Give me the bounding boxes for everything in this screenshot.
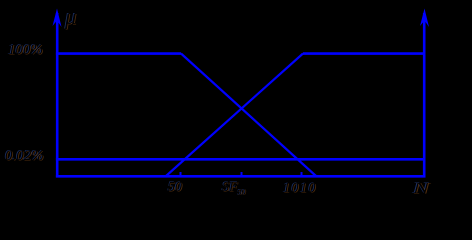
label 50 — [168, 180, 182, 196]
y-axis (left vertical axis line) — [56, 13, 59, 178]
right axis arrowhead — [420, 9, 429, 28]
label 0.02% — [5, 148, 44, 165]
membership function falling edge — [181, 54, 316, 177]
right axis (right vertical line) — [423, 13, 426, 178]
membership function right plateau 100% — [303, 52, 425, 55]
tick mark 3 — [301, 172, 303, 176]
threshold line 0.02% level — [56, 158, 426, 161]
tick mark 2 — [241, 172, 243, 176]
label SF — [222, 180, 246, 197]
label mu (y-axis symbol) — [65, 4, 77, 30]
y-axis arrowhead — [53, 9, 62, 28]
x-axis (bottom horizontal axis) — [56, 175, 426, 178]
label N — [413, 180, 429, 198]
membership function rising edge — [166, 54, 303, 177]
tick mark 1 — [180, 172, 182, 176]
label 1010 — [283, 181, 317, 197]
label 100% — [8, 42, 43, 59]
membership function left plateau 100% — [56, 52, 181, 55]
